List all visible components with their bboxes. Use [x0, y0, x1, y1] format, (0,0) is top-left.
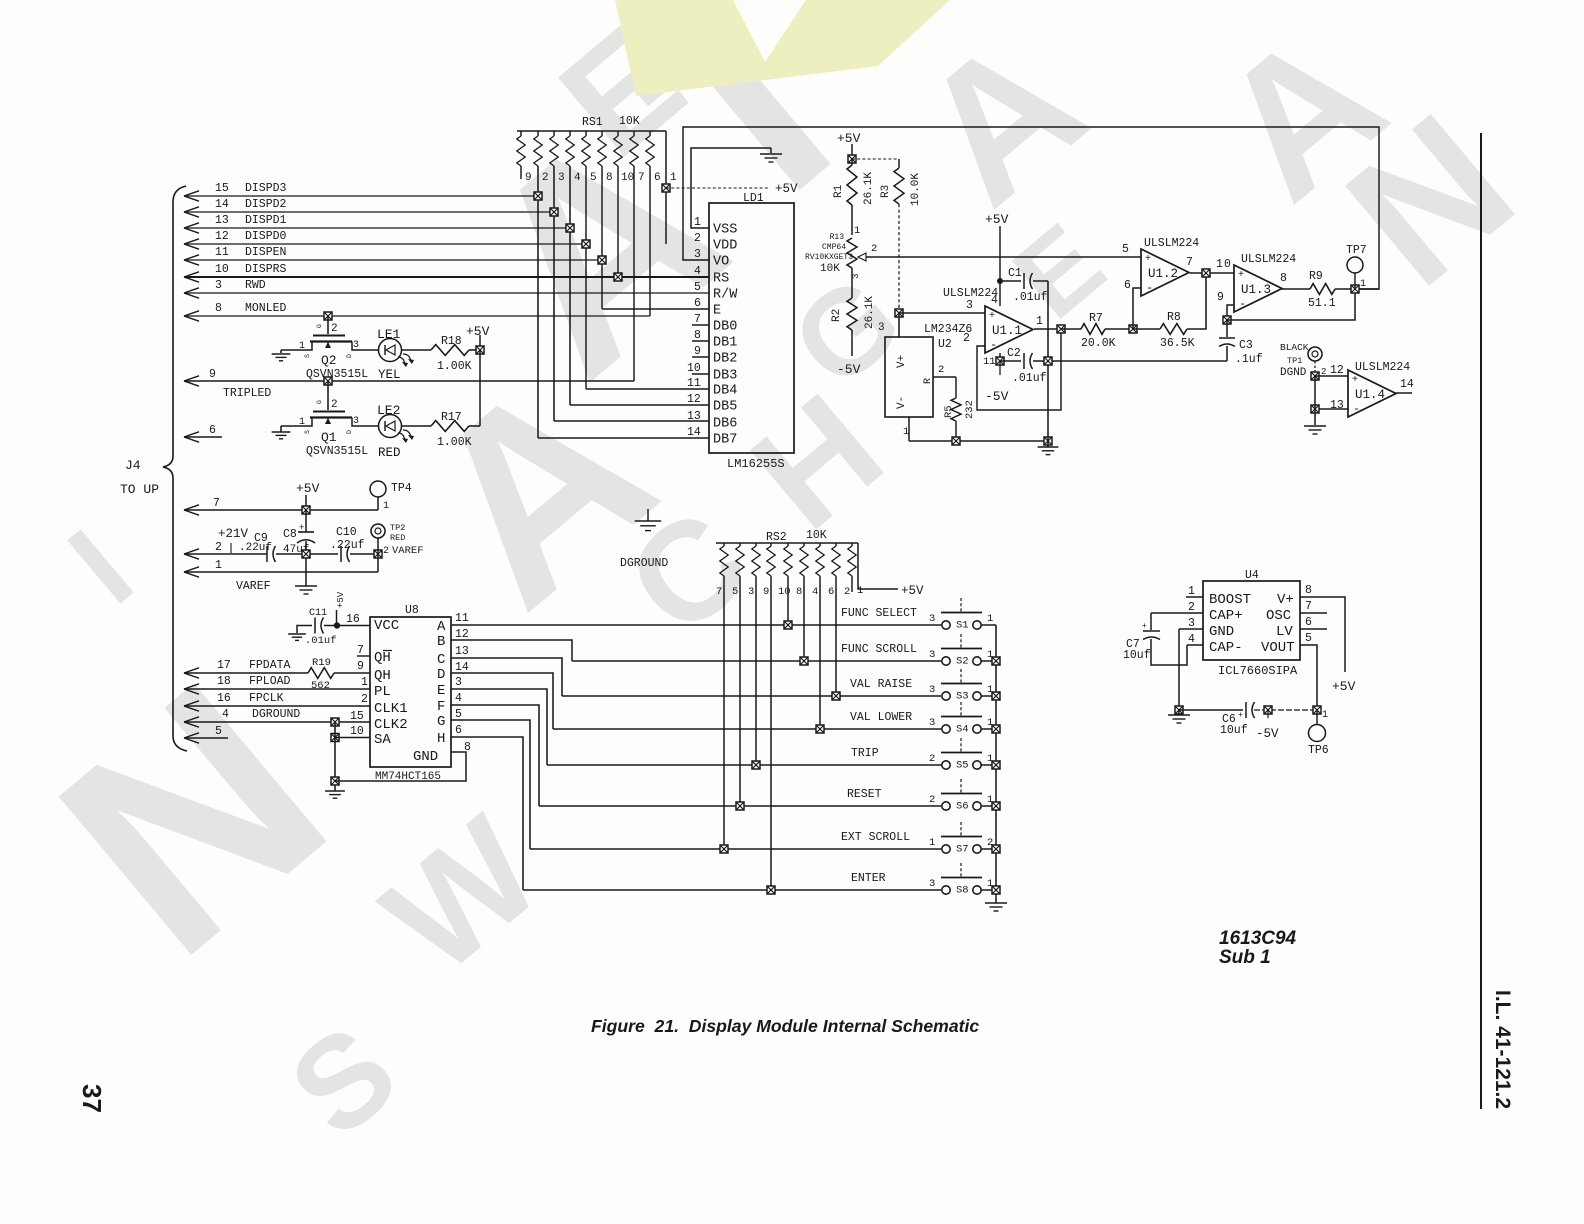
- svg-text:26.1K: 26.1K: [863, 172, 875, 205]
- svg-text:R8: R8: [1167, 311, 1181, 324]
- svg-text:DB4: DB4: [713, 384, 737, 399]
- RS2 pin1 to +5V: [858, 543, 898, 589]
- resistor R7 20.0K: [1081, 324, 1105, 335]
- svg-text:16: 16: [217, 692, 231, 705]
- svg-text:4: 4: [455, 692, 462, 705]
- wire J4 pin 10 DISPRS: [184, 272, 199, 277]
- svg-text:R9: R9: [1309, 270, 1323, 283]
- U4 pin 1 BOOST stub: [1186, 596, 1203, 598]
- svg-text:12: 12: [1330, 364, 1344, 377]
- svg-text:G: G: [316, 400, 323, 404]
- svg-text:3: 3: [215, 279, 222, 292]
- svg-text:2: 2: [929, 753, 935, 765]
- RS2 resistor pin 6: [835, 543, 837, 546]
- ground (U4): [1178, 710, 1180, 715]
- wire J4 pin 12 DISPD0: [184, 239, 199, 244]
- svg-text:D: D: [346, 354, 353, 358]
- wire U2 pin1 to ground rail: [908, 417, 910, 441]
- svg-text:+5V: +5V: [901, 584, 924, 598]
- svg-text:TP4: TP4: [391, 482, 412, 495]
- svg-text:FPLOAD: FPLOAD: [249, 675, 291, 688]
- svg-text:LE2: LE2: [377, 403, 400, 418]
- svg-text:26.1K: 26.1K: [864, 296, 876, 329]
- wire J4 pin 11 DISPEN: [184, 255, 199, 260]
- ground (Q2 source): [280, 350, 282, 353]
- resistor R9 51.1: [1282, 288, 1310, 290]
- svg-text:TP7: TP7: [1346, 244, 1367, 257]
- svg-text:4: 4: [991, 294, 998, 307]
- svg-text:RED: RED: [390, 533, 405, 543]
- resistor R2 26.1K: [851, 268, 853, 298]
- resistor R17 1.00K: [402, 425, 431, 427]
- svg-text:DGROUND: DGROUND: [620, 557, 668, 570]
- svg-text:TRIPLED: TRIPLED: [223, 387, 271, 400]
- ground (Q1 source): [280, 426, 282, 432]
- svg-text:.01uf: .01uf: [305, 635, 337, 647]
- svg-text:10: 10: [215, 263, 229, 276]
- svg-text:DISPD0: DISPD0: [245, 230, 287, 243]
- svg-text:8: 8: [606, 172, 613, 184]
- wire U1.3 -in: [1227, 305, 1234, 320]
- svg-text:1: 1: [383, 501, 389, 512]
- svg-text:15: 15: [350, 710, 364, 723]
- svg-text:DISPD3: DISPD3: [245, 182, 287, 195]
- svg-text:C11: C11: [309, 608, 327, 619]
- svg-text:1: 1: [694, 216, 701, 229]
- svg-text:-5V: -5V: [985, 389, 1009, 404]
- svg-text:LV: LV: [1276, 624, 1293, 640]
- wire J4 pin 14 DISPD2: [184, 207, 199, 212]
- svg-text:CAP-: CAP-: [1209, 640, 1243, 656]
- svg-text:0: 0: [1224, 258, 1231, 271]
- wire LD1 VSS to ground: [691, 148, 771, 228]
- svg-text:CMP64: CMP64: [822, 243, 846, 252]
- svg-text:U1.2: U1.2: [1148, 267, 1178, 281]
- svg-text:C8: C8: [283, 528, 297, 541]
- ground (C8 rail): [295, 585, 317, 587]
- svg-text:S3: S3: [956, 691, 969, 703]
- svg-text:R2: R2: [831, 309, 843, 322]
- svg-text:7: 7: [638, 172, 645, 184]
- svg-text:5: 5: [455, 708, 462, 721]
- U4 pin 3 GND: [1179, 628, 1203, 630]
- svg-text:VSS: VSS: [713, 223, 737, 238]
- svg-text:1: 1: [361, 676, 368, 689]
- svg-text:232: 232: [964, 400, 976, 419]
- RS2 resistor pin 5: [739, 543, 741, 546]
- svg-text:3: 3: [878, 322, 885, 334]
- capacitor C9 .22uf: [266, 546, 268, 562]
- svg-text:1: 1: [987, 613, 993, 625]
- wire TRIPLED (J4 pin 9): [184, 376, 199, 381]
- svg-text:+: +: [1238, 711, 1243, 720]
- switch S2 FUNC SCROLL: [572, 660, 941, 662]
- svg-text:GND: GND: [413, 749, 438, 765]
- svg-text:3: 3: [558, 172, 565, 184]
- svg-text:1: 1: [1216, 258, 1223, 271]
- svg-text:8: 8: [215, 302, 222, 315]
- RS1 resistor pin 4: [569, 131, 571, 136]
- svg-text:4: 4: [222, 708, 229, 721]
- svg-text:6: 6: [209, 424, 216, 437]
- wire DGROUND (J4 pin 4): [184, 717, 199, 722]
- svg-text:RESET: RESET: [847, 788, 882, 801]
- svg-text:TP6: TP6: [1308, 744, 1329, 757]
- resistor R8 36.5K: [1160, 324, 1187, 335]
- svg-text:+: +: [1142, 622, 1147, 631]
- svg-text:U2: U2: [938, 338, 952, 351]
- svg-text:Figure 21. Display Module In: Figure 21. Display Module Internal Schem…: [591, 1016, 979, 1036]
- svg-text:2: 2: [331, 399, 338, 411]
- wire U1.1 +in: [899, 312, 985, 314]
- svg-text:S8: S8: [956, 885, 969, 897]
- RS1 resistor pin 5: [585, 131, 587, 136]
- svg-text:10K: 10K: [820, 263, 840, 275]
- svg-text:9: 9: [763, 586, 769, 598]
- switch S4 VAL LOWER: [553, 728, 941, 730]
- RS2 resistor pin 2: [851, 543, 853, 546]
- svg-text:V+: V+: [896, 355, 908, 368]
- svg-text:ULSLM224: ULSLM224: [1241, 253, 1296, 266]
- svg-text:7: 7: [716, 586, 722, 598]
- wire U8 B to S2 row: [451, 640, 572, 661]
- svg-text:C1: C1: [1008, 267, 1022, 280]
- svg-text:E: E: [713, 304, 721, 319]
- svg-text:DB2: DB2: [713, 352, 737, 367]
- RS1 resistor pin 2: [537, 131, 539, 136]
- svg-text:3: 3: [748, 586, 754, 598]
- svg-text:R19: R19: [312, 657, 331, 669]
- svg-text:7: 7: [1186, 256, 1193, 269]
- svg-text:U1.4: U1.4: [1355, 388, 1385, 402]
- RS1 column wires to LD1 data pins: [537, 166, 539, 438]
- svg-text:VDD: VDD: [713, 239, 737, 254]
- watermark: yellow patch top: [615, 0, 950, 96]
- svg-text:H: H: [437, 731, 445, 747]
- svg-text:QH: QH: [374, 668, 391, 684]
- svg-text:9: 9: [209, 368, 216, 381]
- svg-text:8: 8: [1280, 272, 1287, 285]
- svg-text:.22uf: .22uf: [330, 539, 365, 552]
- svg-text:+5V: +5V: [336, 591, 346, 608]
- svg-text:VAL LOWER: VAL LOWER: [850, 711, 912, 724]
- svg-text:DB5: DB5: [713, 400, 737, 415]
- svg-text:+21V: +21V: [218, 527, 249, 541]
- svg-text:S7: S7: [956, 844, 969, 856]
- svg-text:FPCLK: FPCLK: [249, 692, 284, 705]
- svg-text:DB3: DB3: [713, 369, 737, 384]
- svg-text:+: +: [1352, 375, 1358, 386]
- svg-text:CLK1: CLK1: [374, 701, 408, 717]
- svg-text:6: 6: [654, 172, 661, 184]
- svg-text:1: 1: [1360, 279, 1366, 290]
- wire J4 pin 7: [184, 505, 199, 510]
- wire J4 pin 5: [184, 733, 199, 738]
- svg-text:G: G: [316, 324, 323, 328]
- ground (U8): [325, 790, 345, 792]
- svg-text:7: 7: [1305, 600, 1312, 613]
- svg-text:+5V: +5V: [775, 182, 798, 196]
- svg-text:S5: S5: [956, 760, 969, 772]
- resistor R5 232: [933, 376, 956, 378]
- svg-text:1613C94: 1613C94: [1219, 928, 1297, 949]
- wire J4 pin 1 VAREF: [184, 567, 199, 572]
- svg-text:6: 6: [694, 297, 701, 310]
- svg-text:1: 1: [299, 417, 305, 428]
- svg-text:14: 14: [687, 426, 701, 439]
- wire U8 D to S4 row: [451, 673, 553, 729]
- svg-text:10: 10: [687, 362, 701, 375]
- svg-text:CAP+: CAP+: [1209, 608, 1243, 624]
- svg-text:S: S: [304, 430, 311, 434]
- svg-text:RWD: RWD: [245, 279, 266, 292]
- wire J4 pin 6: [184, 432, 199, 437]
- resistor R1 26.1K: [851, 159, 853, 165]
- svg-text:D: D: [437, 667, 445, 683]
- connector J4 brace: [163, 186, 187, 751]
- svg-text:R5: R5: [943, 405, 955, 418]
- svg-text:6: 6: [828, 586, 834, 598]
- switch S5 TRIP: [547, 764, 941, 766]
- svg-text:-: -: [1146, 281, 1153, 295]
- wire J4 pin 13 DISPD1: [184, 223, 199, 228]
- svg-text:36.5K: 36.5K: [1160, 337, 1195, 350]
- wire U8 F to S6 row: [451, 705, 539, 806]
- svg-text:+: +: [1238, 270, 1244, 281]
- svg-text:5: 5: [732, 586, 738, 598]
- svg-text:R3: R3: [880, 185, 892, 198]
- svg-text:RV10KXGET3: RV10KXGET3: [805, 253, 853, 262]
- svg-text:R18: R18: [441, 335, 462, 348]
- svg-text:2: 2: [844, 586, 850, 598]
- resistor R3 10.0K: [852, 158, 899, 160]
- svg-text:YEL: YEL: [378, 368, 401, 382]
- svg-text:C10: C10: [336, 526, 357, 539]
- svg-text:VAREF: VAREF: [392, 545, 424, 557]
- svg-text:3: 3: [455, 676, 462, 689]
- svg-text:3: 3: [353, 416, 359, 427]
- svg-text:J4: J4: [125, 458, 141, 473]
- svg-text:+: +: [1145, 254, 1151, 265]
- test point TP1 BLACK DGND: [1308, 347, 1322, 361]
- wire U8 A to S1 row: [451, 624, 941, 626]
- wire U1.2 out to U1.3: [1190, 272, 1234, 274]
- svg-text:1: 1: [1036, 315, 1043, 328]
- svg-text:11: 11: [983, 356, 996, 368]
- svg-text:10: 10: [350, 725, 364, 738]
- svg-text:VCC: VCC: [374, 618, 399, 634]
- svg-text:V-: V-: [896, 396, 908, 409]
- svg-text:3: 3: [929, 649, 935, 661]
- capacitor C11 .01uf with ground: [297, 626, 312, 634]
- svg-text:6: 6: [455, 724, 462, 737]
- svg-text:RS1: RS1: [582, 116, 603, 129]
- svg-text:RS: RS: [713, 272, 729, 287]
- wire U8 GND pin 8: [335, 752, 466, 781]
- svg-text:1.00K: 1.00K: [437, 360, 472, 373]
- svg-text:BLACK: BLACK: [1280, 342, 1309, 353]
- ground (U1.4): [1304, 425, 1326, 427]
- RS1 resistor pin 9: [520, 131, 522, 136]
- svg-text:8: 8: [796, 586, 802, 598]
- svg-text:TP2: TP2: [390, 523, 405, 533]
- RS1 pin1 / +5V rail to LD1 VDD: [665, 131, 667, 244]
- svg-text:FPDATA: FPDATA: [249, 659, 291, 672]
- svg-text:3: 3: [929, 878, 935, 890]
- test point TP4: [370, 481, 386, 497]
- switch S6 RESET: [539, 805, 941, 807]
- svg-text:14: 14: [215, 198, 229, 211]
- svg-text:DB6: DB6: [713, 417, 737, 432]
- svg-text:VAL RAISE: VAL RAISE: [850, 678, 912, 691]
- svg-text:2: 2: [694, 232, 701, 245]
- svg-text:3: 3: [694, 248, 701, 261]
- svg-text:-: -: [990, 338, 997, 352]
- svg-text:-5V: -5V: [837, 362, 861, 377]
- svg-text:.1uf: .1uf: [1235, 353, 1263, 366]
- svg-text:-: -: [1239, 297, 1246, 311]
- svg-text:RED: RED: [378, 446, 401, 460]
- svg-text:13: 13: [215, 214, 229, 227]
- svg-text:VAREF: VAREF: [236, 580, 271, 593]
- wire U1.4 -in: [1315, 408, 1348, 410]
- current source U2 LM234Z6: [895, 309, 903, 317]
- svg-text:SA: SA: [374, 732, 391, 748]
- svg-text:16: 16: [346, 613, 360, 626]
- svg-text:5: 5: [1305, 632, 1312, 645]
- wire U1.1 -in feedback: [977, 329, 1061, 410]
- svg-text:DISPD2: DISPD2: [245, 198, 287, 211]
- svg-text:1: 1: [903, 426, 909, 438]
- wire FPLOAD: [184, 684, 199, 689]
- right margin rule: [1480, 133, 1482, 1109]
- LED LE2 RED: [379, 415, 402, 438]
- svg-text:13: 13: [455, 645, 469, 658]
- svg-text:2: 2: [871, 243, 877, 255]
- RS2 resistor pin 10: [787, 543, 789, 546]
- svg-text:1: 1: [670, 172, 677, 184]
- wire U8 H to S8 row: [451, 737, 523, 890]
- RS2 resistor pin 7: [723, 543, 725, 546]
- svg-text:.01uf: .01uf: [1013, 291, 1048, 304]
- svg-text:Q2: Q2: [321, 353, 337, 368]
- svg-text:I.L. 41-121.2: I.L. 41-121.2: [1491, 990, 1514, 1109]
- svg-text:LD1: LD1: [743, 192, 764, 205]
- svg-text:S: S: [304, 354, 311, 358]
- svg-text:12: 12: [687, 393, 701, 406]
- svg-text:V+: V+: [1277, 592, 1294, 608]
- svg-text:11: 11: [215, 246, 229, 259]
- svg-text:4: 4: [694, 265, 701, 278]
- svg-text:VOUT: VOUT: [1261, 640, 1295, 656]
- svg-text:Sub 1: Sub 1: [1219, 947, 1271, 968]
- svg-text:+5V: +5V: [1332, 679, 1356, 694]
- svg-text:MONLED: MONLED: [245, 302, 287, 315]
- svg-text:R13: R13: [830, 233, 845, 242]
- svg-text:2: 2: [361, 693, 368, 706]
- resistor R18 1.00K: [402, 349, 431, 351]
- svg-text:3: 3: [929, 717, 935, 729]
- svg-text:ULSLM224: ULSLM224: [1144, 237, 1199, 250]
- wire U4 VOUT to TP6: [1300, 645, 1317, 710]
- svg-text:562: 562: [311, 680, 330, 692]
- wire LD1 VO feedback to TP7 node: [683, 127, 1379, 289]
- svg-text:DGND: DGND: [1280, 367, 1307, 379]
- ground DGROUND label: [647, 509, 649, 521]
- svg-text:7: 7: [357, 644, 364, 657]
- svg-text:+5V: +5V: [466, 324, 490, 339]
- svg-text:FUNC SELECT: FUNC SELECT: [841, 607, 917, 620]
- svg-text:11: 11: [455, 612, 469, 625]
- transistor Q1 QSVN3515L: [324, 377, 332, 385]
- wire U1.1 output: [1034, 328, 1061, 330]
- svg-text:3: 3: [929, 684, 935, 696]
- svg-text:BOOST: BOOST: [1209, 592, 1251, 608]
- svg-text:1: 1: [299, 341, 305, 352]
- svg-text:C3: C3: [1239, 339, 1253, 352]
- svg-text:7: 7: [694, 313, 701, 326]
- svg-text:-5V: -5V: [1256, 727, 1279, 741]
- wire U4 GND to ground: [1178, 629, 1180, 710]
- svg-text:9: 9: [525, 172, 532, 184]
- svg-text:CLK2: CLK2: [374, 717, 408, 733]
- svg-text:QH: QH: [374, 650, 391, 666]
- U4 pin 2 CAP+: [1151, 612, 1203, 614]
- svg-text:13: 13: [687, 410, 701, 423]
- svg-text:37: 37: [77, 1084, 107, 1113]
- capacitor C8 47uf: [298, 531, 314, 533]
- svg-text:LM16255S: LM16255S: [727, 457, 785, 471]
- svg-text:2: 2: [383, 546, 389, 557]
- svg-text:U1.1: U1.1: [992, 324, 1022, 338]
- svg-text:1: 1: [215, 559, 222, 572]
- wire J4 pin 8 MONLED: [184, 311, 199, 316]
- svg-text:C: C: [437, 652, 445, 668]
- svg-text:ENTER: ENTER: [851, 872, 886, 885]
- transistor Q2 QSVN3515L: [324, 312, 332, 320]
- svg-text:2: 2: [963, 332, 970, 345]
- svg-text:GND: GND: [1209, 624, 1234, 640]
- wire FPDATA with resistor R19 562: [184, 668, 199, 673]
- capacitor C1 .01uf: [1000, 280, 1021, 282]
- svg-text:2: 2: [542, 172, 549, 184]
- RS2 column wires down to switch rows: [723, 585, 725, 849]
- svg-text:9: 9: [1217, 291, 1224, 304]
- -5V node: [1264, 706, 1272, 714]
- svg-text:1: 1: [1322, 710, 1328, 721]
- svg-text:D: D: [346, 430, 353, 434]
- svg-text:+5V: +5V: [296, 481, 320, 496]
- svg-text:18: 18: [217, 675, 231, 688]
- wire U4 V+ to +5V: [1300, 597, 1345, 672]
- svg-text:14: 14: [1400, 378, 1414, 391]
- switch common ground rail: [995, 625, 997, 896]
- svg-text:9: 9: [694, 345, 701, 358]
- ground (C1/C2 rail): [1047, 441, 1049, 447]
- svg-text:Q1: Q1: [321, 430, 337, 445]
- svg-text:10K: 10K: [806, 529, 827, 542]
- capacitor C10 .22uf: [340, 546, 342, 562]
- svg-text:2: 2: [331, 323, 338, 335]
- svg-text:12: 12: [455, 628, 469, 641]
- svg-text:3: 3: [353, 340, 359, 351]
- wire U1.4 +in: [1315, 375, 1348, 377]
- U4 LV stub: [1300, 628, 1327, 630]
- svg-text:5: 5: [1122, 243, 1129, 256]
- svg-text:ULSLM224: ULSLM224: [1355, 361, 1410, 374]
- svg-text:RS2: RS2: [766, 531, 787, 544]
- switch S1 FUNC SELECT: [784, 621, 792, 629]
